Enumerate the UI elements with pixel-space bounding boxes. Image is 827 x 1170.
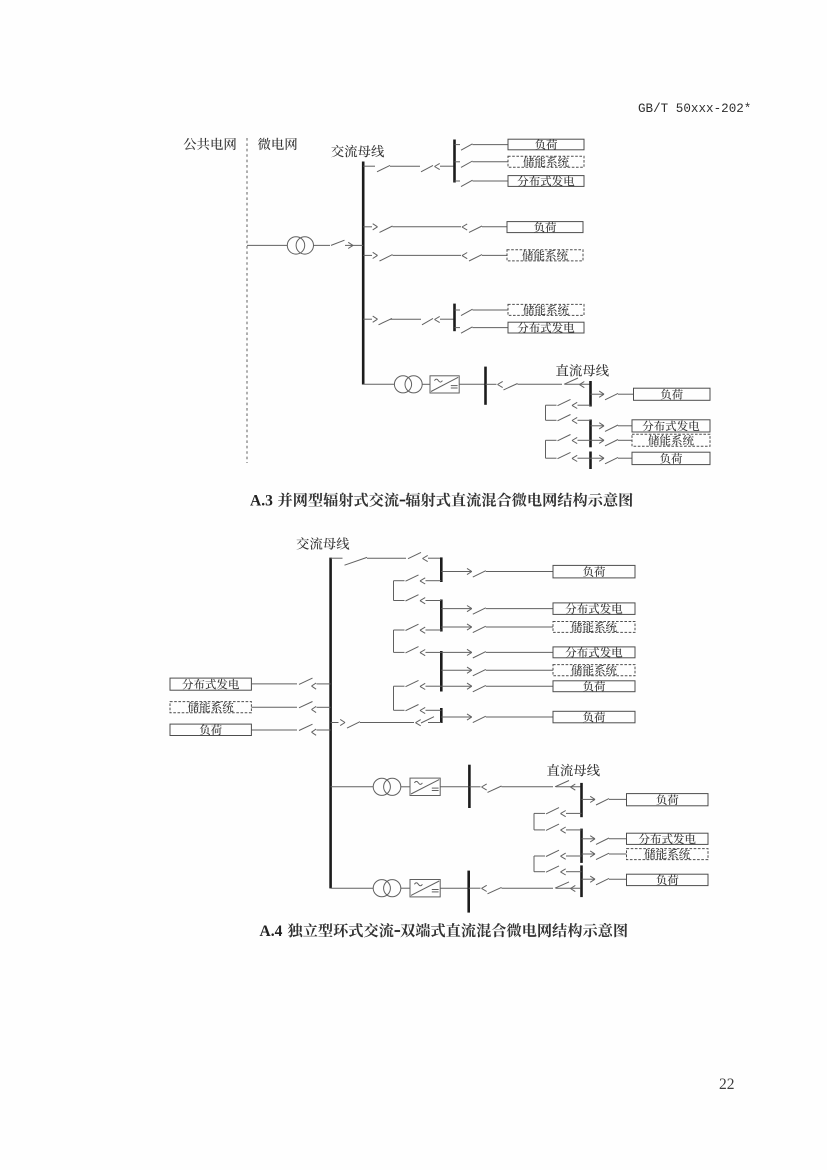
svg-text:GB/T 50xxx-202*: GB/T 50xxx-202*	[638, 102, 751, 116]
svg-text:A.3: A.3	[250, 493, 273, 510]
svg-text:22: 22	[719, 1076, 735, 1093]
svg-text:A.4: A.4	[260, 923, 283, 940]
